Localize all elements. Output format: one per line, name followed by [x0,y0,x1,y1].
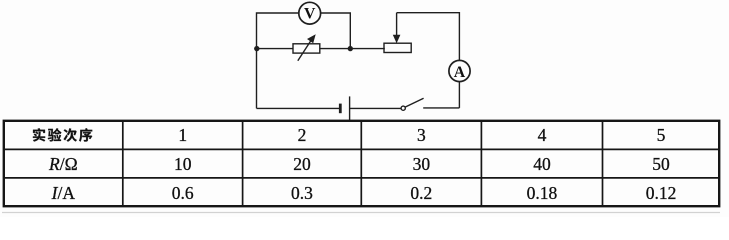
svg-text:A: A [454,64,466,81]
svg-text:V: V [304,6,316,23]
